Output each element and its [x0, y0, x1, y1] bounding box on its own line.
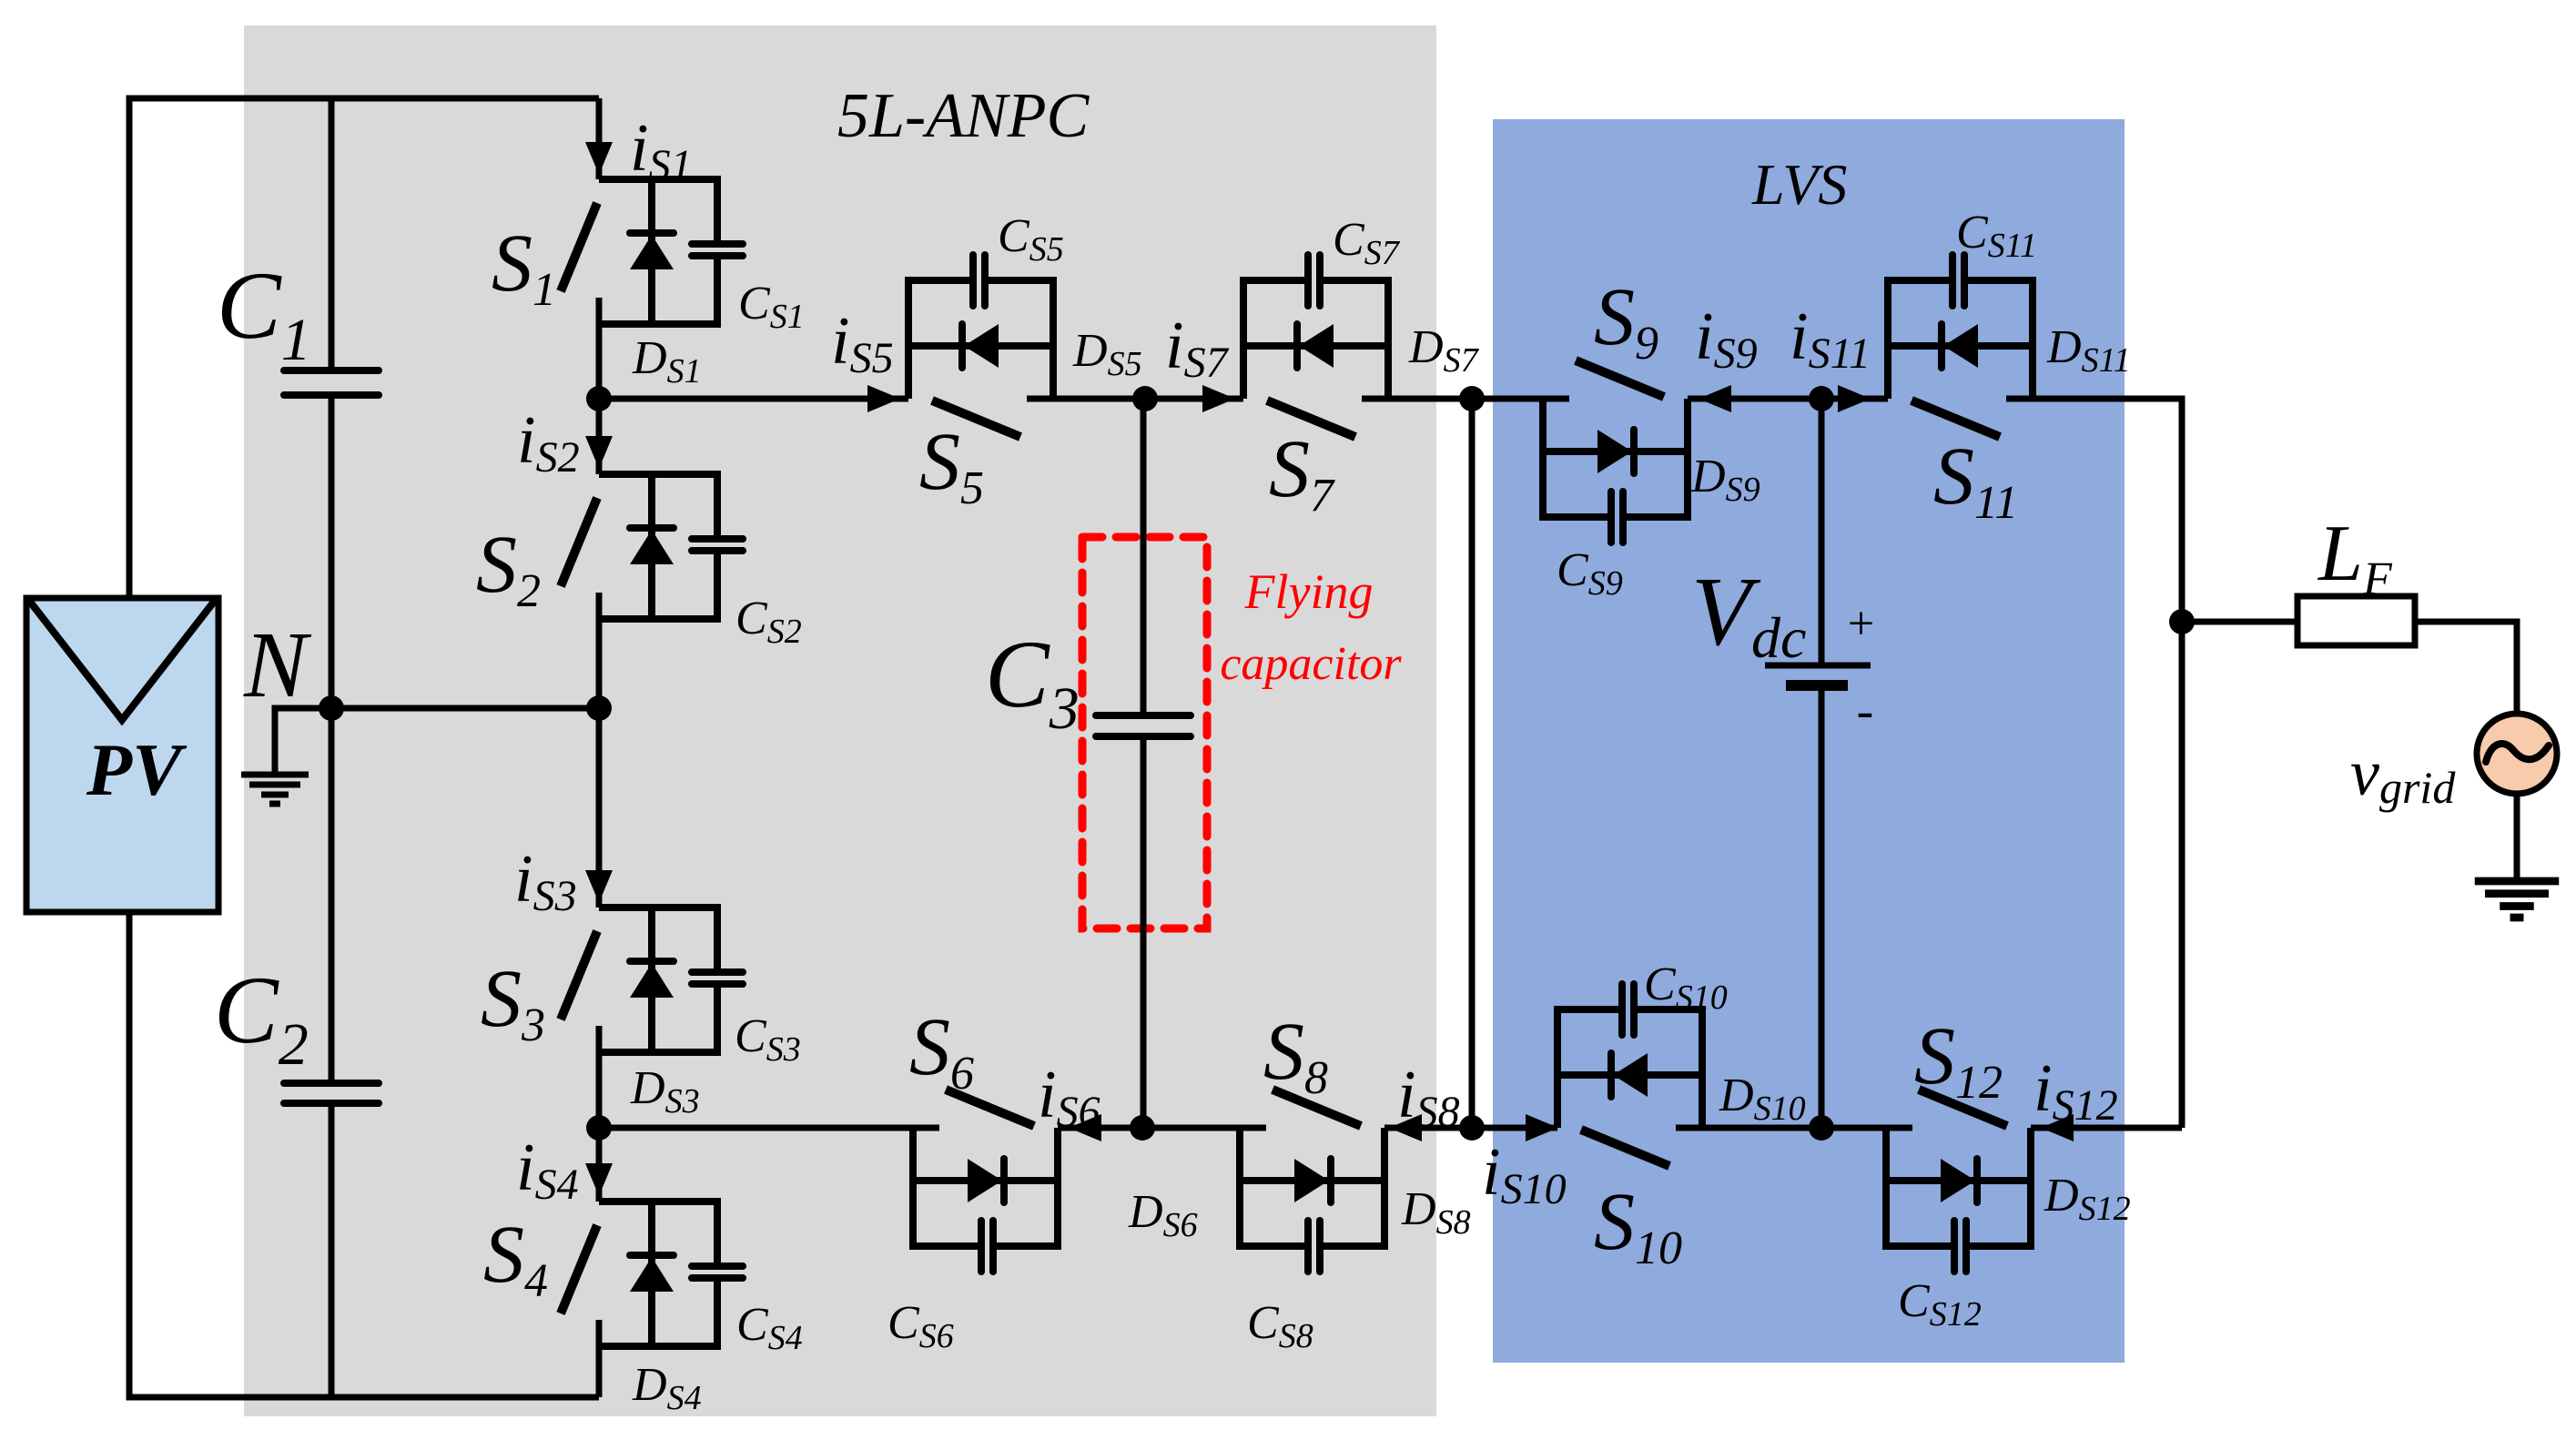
svg-text:-: -: [1857, 683, 1874, 739]
svg-text:Flying: Flying: [1244, 564, 1374, 619]
svg-text:N: N: [243, 613, 312, 717]
svg-text:LVS: LVS: [1751, 152, 1847, 217]
svg-text:PV: PV: [86, 728, 188, 811]
svg-text:vgrid: vgrid: [2350, 736, 2456, 813]
svg-text:DS7: DS7: [1408, 321, 1480, 380]
svg-text:+: +: [1844, 598, 1876, 650]
svg-text:capacitor: capacitor: [1220, 638, 1402, 690]
svg-text:LF: LF: [2317, 510, 2393, 605]
svg-text:5L-ANPC: 5L-ANPC: [837, 81, 1090, 151]
svg-text:DS8: DS8: [1401, 1183, 1471, 1242]
